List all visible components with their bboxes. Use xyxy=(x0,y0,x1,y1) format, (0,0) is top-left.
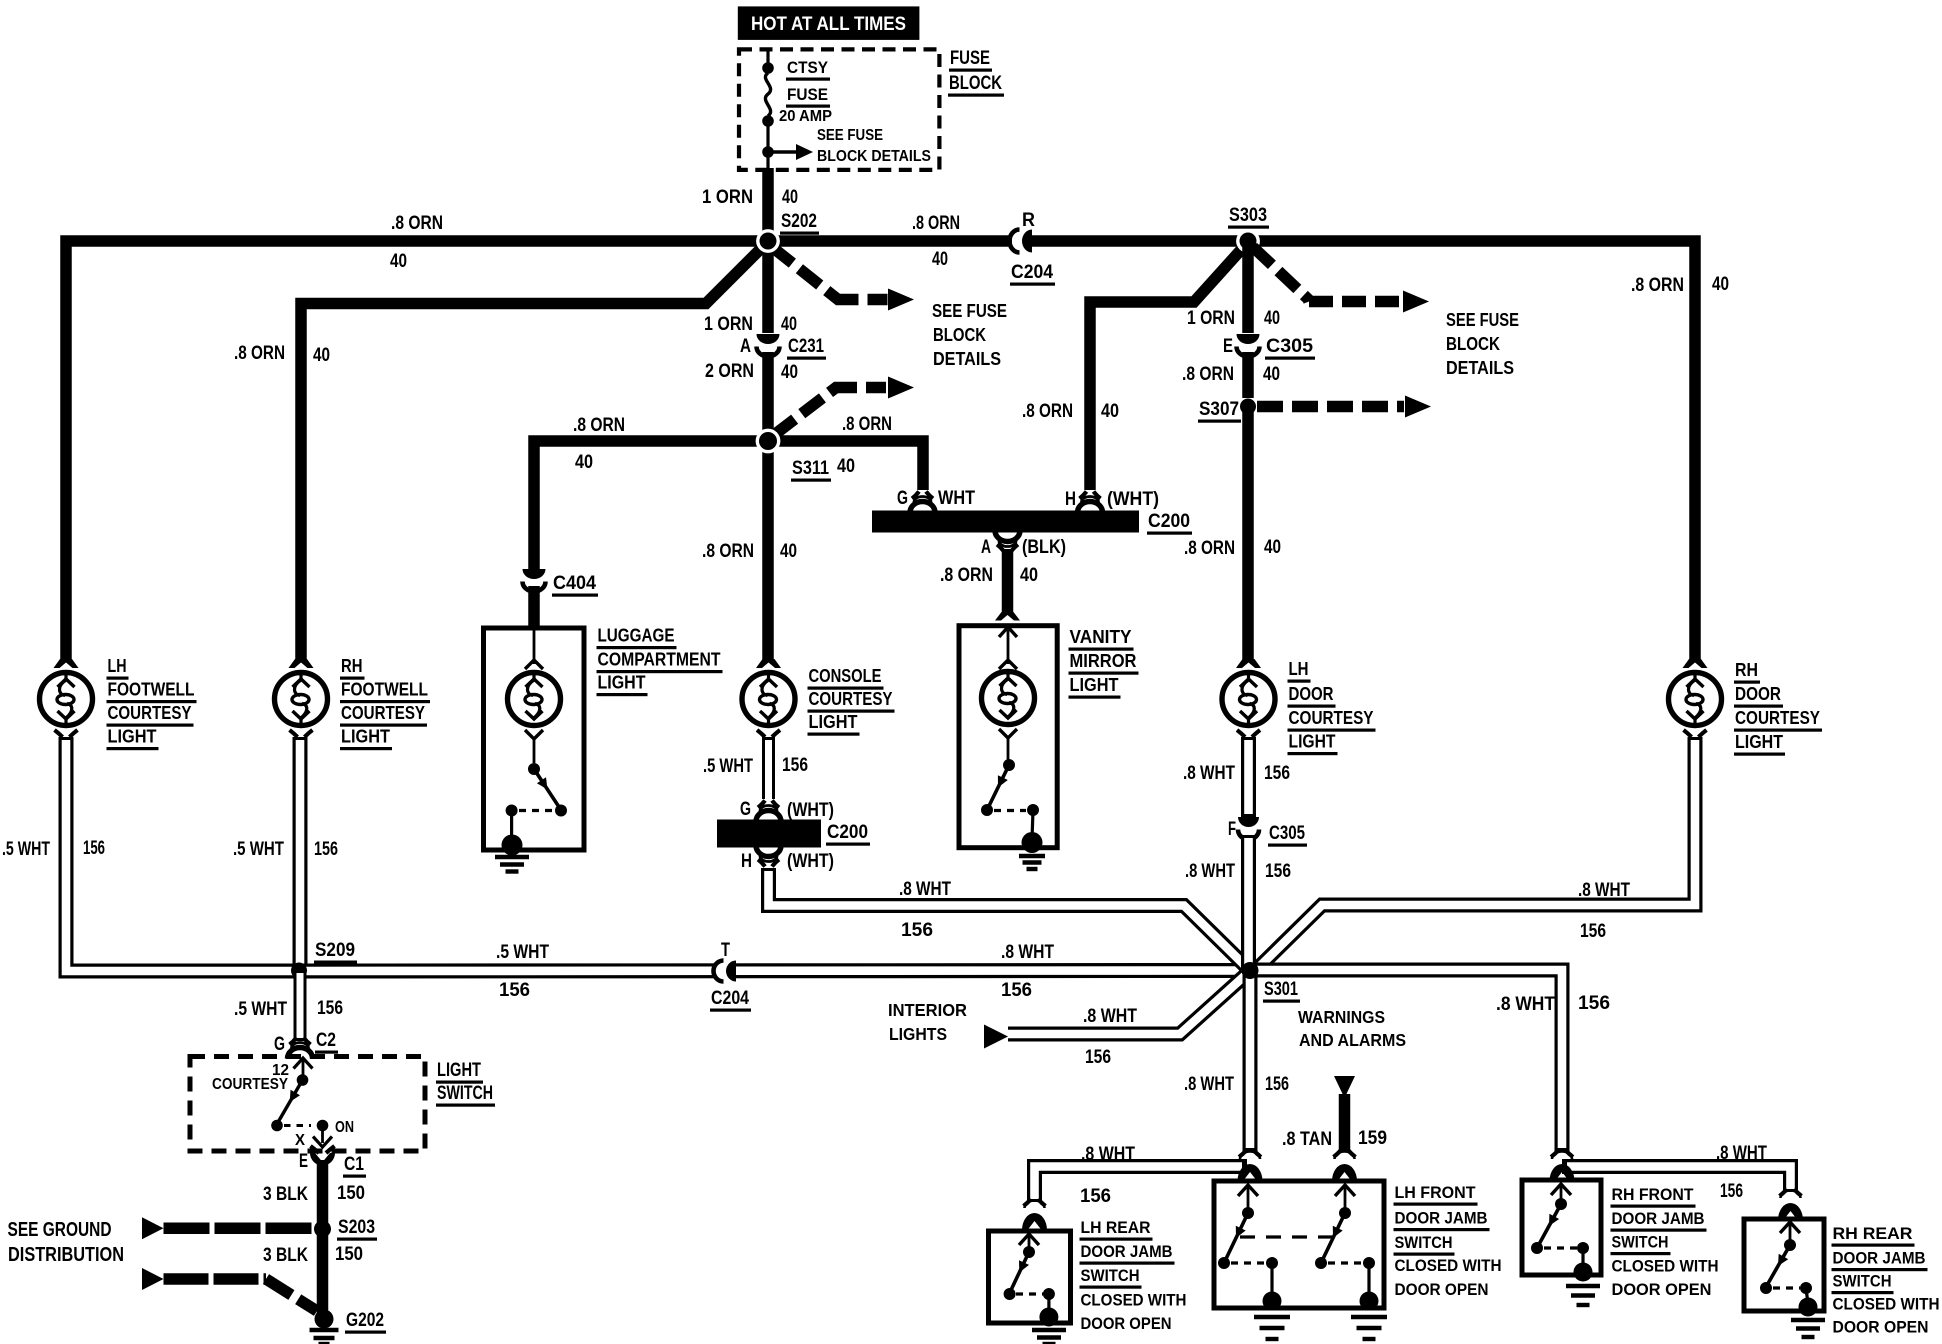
wire lamp feed inside luggage box xyxy=(533,628,536,664)
svg-text:.8 ORN: .8 ORN xyxy=(702,541,754,562)
connector C200 (console bar) xyxy=(717,820,821,848)
svg-text:C404: C404 xyxy=(553,573,596,594)
svg-text:156: 156 xyxy=(1001,980,1032,1001)
switch luggage (trunk) switch xyxy=(528,763,540,775)
svg-text:.8 ORN: .8 ORN xyxy=(912,213,960,234)
connector C200 pin H (lower bar) xyxy=(756,846,781,857)
svg-text:LIGHT: LIGHT xyxy=(1070,674,1120,695)
svg-text:CONSOLE: CONSOLE xyxy=(809,665,882,686)
svg-text:40: 40 xyxy=(782,187,798,208)
svg-text:G202: G202 xyxy=(346,1310,384,1331)
ground RH rear door jamb switch xyxy=(1791,1318,1825,1322)
svg-text:H: H xyxy=(1065,489,1076,510)
connector C204 terminal R (orange feed) xyxy=(1012,228,1032,255)
node see-fuse-block tap xyxy=(762,146,774,158)
svg-text:3 BLK: 3 BLK xyxy=(263,1184,308,1205)
svg-text:X: X xyxy=(295,1132,305,1149)
svg-text:SWITCH: SWITCH xyxy=(1612,1233,1669,1252)
svg-text:C2: C2 xyxy=(316,1030,336,1051)
svg-text:VANITY: VANITY xyxy=(1070,626,1133,647)
svg-text:.8 ORN: .8 ORN xyxy=(1022,401,1073,422)
svg-text:40: 40 xyxy=(781,362,798,383)
svg-text:40: 40 xyxy=(1101,401,1119,422)
svg-text:T: T xyxy=(721,940,730,961)
svg-text:LIGHTS: LIGHTS xyxy=(889,1024,947,1044)
svg-text:A: A xyxy=(740,336,751,357)
splice S311 xyxy=(756,429,781,454)
LH rear door jamb switch box xyxy=(989,1231,1071,1323)
svg-text:LH FRONT: LH FRONT xyxy=(1395,1183,1477,1202)
wire .8 ORN main run (left end down to LH footwell light) xyxy=(66,241,1695,661)
arrow from warnings and alarms (down) xyxy=(1334,1076,1355,1098)
wire .8 TAN to LH front jamb switch xyxy=(1339,1094,1351,1151)
svg-text:COURTESY: COURTESY xyxy=(809,688,894,709)
wire 2 ORN C231 to S311 xyxy=(762,352,774,441)
svg-text:40: 40 xyxy=(837,456,855,477)
luggage compartment light box xyxy=(484,628,585,850)
svg-text:LH REAR: LH REAR xyxy=(1081,1218,1151,1237)
wire .8 ORN C200 A to vanity light xyxy=(1002,549,1014,612)
svg-text:COURTESY: COURTESY xyxy=(108,702,193,723)
connector C204 terminal T (156 line) xyxy=(716,958,736,985)
svg-text:C200: C200 xyxy=(827,822,868,843)
connector to RH front door jamb switch xyxy=(1551,1150,1559,1157)
svg-text:CTSY: CTSY xyxy=(787,58,829,77)
svg-text:156: 156 xyxy=(1080,1186,1111,1207)
svg-text:LIGHT: LIGHT xyxy=(809,711,859,732)
switch RH rear door jamb xyxy=(1780,1222,1800,1233)
wire fuse feed (top, inside fuse block) xyxy=(766,49,769,64)
svg-text:G: G xyxy=(740,799,751,820)
svg-text:S209: S209 xyxy=(315,940,355,961)
svg-text:LH: LH xyxy=(1289,658,1309,679)
dashed arrow see ground distribution (upper) xyxy=(142,1217,164,1239)
svg-text:COURTESY: COURTESY xyxy=(212,1076,288,1093)
svg-text:.8 ORN: .8 ORN xyxy=(234,343,285,364)
svg-text:CLOSED WITH: CLOSED WITH xyxy=(1612,1257,1719,1276)
connector to LH rear door jamb switch xyxy=(1024,1199,1032,1206)
svg-text:COURTESY: COURTESY xyxy=(341,702,426,723)
connector C231 xyxy=(755,334,782,354)
svg-text:DISTRIBUTION: DISTRIBUTION xyxy=(8,1244,124,1266)
svg-text:S311: S311 xyxy=(792,458,829,479)
svg-text:DOOR OPEN: DOOR OPEN xyxy=(1081,1314,1172,1333)
bulb console courtesy light xyxy=(756,659,781,668)
switch RH front door jamb xyxy=(1551,1184,1571,1195)
svg-text:SEE FUSE: SEE FUSE xyxy=(1446,309,1519,330)
svg-text:40: 40 xyxy=(575,452,593,473)
wire .5 WHT LH footwell to S209 xyxy=(66,737,296,971)
light switch dashed box xyxy=(190,1057,425,1152)
svg-text:156: 156 xyxy=(1580,921,1606,942)
svg-text:CLOSED WITH: CLOSED WITH xyxy=(1395,1256,1502,1275)
svg-text:C231: C231 xyxy=(788,336,824,357)
svg-text:CLOSED WITH: CLOSED WITH xyxy=(1081,1291,1187,1310)
svg-text:3 BLK: 3 BLK xyxy=(263,1245,308,1266)
svg-text:C200: C200 xyxy=(1148,511,1190,532)
svg-text:HOT AT ALL TIMES: HOT AT ALL TIMES xyxy=(751,13,906,35)
svg-text:LIGHT: LIGHT xyxy=(598,672,647,693)
svg-text:ON: ON xyxy=(335,1119,354,1136)
svg-text:SWITCH: SWITCH xyxy=(437,1082,493,1104)
fuse CTSY FUSE 20 AMP element (squiggle) xyxy=(765,73,770,116)
wire .5 WHT console light to C200 G xyxy=(762,737,775,799)
wire lamp feed inside vanity box xyxy=(1007,630,1010,664)
wire bulb to switch (vanity) xyxy=(1007,738,1010,760)
connector C200 pin G (lower bar) xyxy=(758,801,765,808)
svg-text:.8 ORN: .8 ORN xyxy=(573,415,625,436)
svg-text:LUGGAGE: LUGGAGE xyxy=(598,625,675,646)
svg-text:.5 WHT: .5 WHT xyxy=(234,999,287,1020)
connector C200 pin G cup xyxy=(912,492,919,499)
svg-text:.5 WHT: .5 WHT xyxy=(496,942,549,963)
ground LH rear door jamb switch xyxy=(1032,1328,1066,1332)
svg-text:S203: S203 xyxy=(338,1217,375,1238)
svg-text:SWITCH: SWITCH xyxy=(1395,1233,1453,1252)
svg-text:LIGHT: LIGHT xyxy=(1289,731,1337,752)
svg-text:COMPARTMENT: COMPARTMENT xyxy=(598,649,722,670)
splice S303 xyxy=(1236,229,1260,253)
svg-text:.5 WHT: .5 WHT xyxy=(233,839,284,860)
svg-text:.8 WHT: .8 WHT xyxy=(1083,1006,1137,1027)
svg-text:156: 156 xyxy=(83,838,105,859)
svg-text:SWITCH: SWITCH xyxy=(1081,1266,1140,1285)
svg-text:40: 40 xyxy=(1712,274,1729,295)
gang dashed link between LH front switches xyxy=(1240,1235,1333,1238)
svg-text:156: 156 xyxy=(1085,1047,1111,1068)
svg-text:BLOCK: BLOCK xyxy=(1446,333,1501,354)
svg-text:FOOTWELL: FOOTWELL xyxy=(108,679,195,700)
svg-text:.8 ORN: .8 ORN xyxy=(1182,364,1234,385)
svg-text:159: 159 xyxy=(1358,1128,1387,1149)
svg-text:S307: S307 xyxy=(1199,399,1239,420)
svg-text:C1: C1 xyxy=(344,1154,364,1175)
splice S203 xyxy=(314,1221,331,1238)
wire 3 BLK S203 to G202 xyxy=(317,1229,329,1316)
svg-text:156: 156 xyxy=(1265,861,1291,882)
svg-text:WHT: WHT xyxy=(938,488,975,509)
svg-text:.5 WHT: .5 WHT xyxy=(2,839,50,860)
svg-text:.8 WHT: .8 WHT xyxy=(1001,942,1054,963)
svg-text:156: 156 xyxy=(317,998,343,1019)
wire .8 ORN C404 to luggage box xyxy=(528,586,540,628)
svg-text:A: A xyxy=(981,537,991,558)
wire .8 WHT S301 to RH front jamb switch xyxy=(1250,970,1562,1151)
svg-text:(WHT): (WHT) xyxy=(787,851,834,872)
svg-text:.8 ORN: .8 ORN xyxy=(842,414,892,435)
svg-text:DOOR: DOOR xyxy=(1289,683,1334,704)
svg-text:.8 WHT: .8 WHT xyxy=(1081,1144,1135,1165)
wire .8 WHT console H to S301 xyxy=(769,868,1251,971)
svg-text:LIGHT: LIGHT xyxy=(1735,731,1784,752)
node fuse bottom terminal xyxy=(762,115,774,127)
connector to RH rear door jamb switch xyxy=(1780,1189,1788,1196)
wire fuse output (inside fuse block) xyxy=(766,121,769,170)
wire .8 WHT interior lights to S301 xyxy=(1008,971,1250,1034)
wire .8 WHT LH front to LH rear jamb switch xyxy=(1035,1167,1248,1203)
ground LH front door jamb switch (right) xyxy=(1351,1315,1387,1319)
switch LH front door jamb (second contact) xyxy=(1335,1185,1355,1196)
switch LH front door jamb (driver side) xyxy=(1238,1185,1258,1196)
svg-text:40: 40 xyxy=(1263,364,1280,385)
splice S209 xyxy=(291,963,307,979)
svg-text:.8 WHT: .8 WHT xyxy=(1183,763,1235,784)
svg-text:MIRROR: MIRROR xyxy=(1070,650,1137,671)
wire .8 WHT S301 down to LH front jamb switch xyxy=(1243,971,1258,1152)
svg-text:R: R xyxy=(1022,210,1035,231)
dashed arrow S307 to right xyxy=(1257,401,1404,413)
svg-text:.8 ORN: .8 ORN xyxy=(940,565,993,586)
svg-text:156: 156 xyxy=(499,980,530,1001)
bulb vanity mirror light xyxy=(999,660,1017,669)
svg-text:COURTESY: COURTESY xyxy=(1289,707,1375,728)
svg-text:FUSE: FUSE xyxy=(950,47,990,69)
svg-text:S301: S301 xyxy=(1264,979,1298,1000)
svg-text:1 ORN: 1 ORN xyxy=(702,187,753,208)
svg-text:.5 WHT: .5 WHT xyxy=(703,756,753,777)
switch light switch courtesy contacts xyxy=(294,1058,313,1069)
svg-text:DOOR JAMB: DOOR JAMB xyxy=(1395,1209,1488,1228)
svg-text:.8 ORN: .8 ORN xyxy=(1184,538,1235,559)
svg-text:COURTESY: COURTESY xyxy=(1735,707,1821,728)
svg-text:.8 WHT: .8 WHT xyxy=(1185,861,1235,882)
svg-text:40: 40 xyxy=(1264,537,1281,558)
svg-text:S202: S202 xyxy=(781,211,817,232)
connector C305 terminal F xyxy=(1235,817,1262,837)
splice S202 xyxy=(756,229,780,253)
LH front door jamb switch box xyxy=(1214,1181,1384,1308)
svg-text:AND ALARMS: AND ALARMS xyxy=(1299,1030,1406,1050)
svg-text:BLOCK DETAILS: BLOCK DETAILS xyxy=(817,148,931,165)
svg-text:1 ORN: 1 ORN xyxy=(1187,308,1235,329)
svg-text:156: 156 xyxy=(1264,763,1290,784)
svg-text:FUSE: FUSE xyxy=(787,85,828,104)
fuse block dashed outline xyxy=(739,49,939,169)
wire 1 ORN fuse to S202 xyxy=(762,168,774,241)
connector C2 terminal G xyxy=(290,1038,297,1045)
svg-text:RH REAR: RH REAR xyxy=(1833,1224,1913,1243)
fuse block title HOT AT ALL TIMES xyxy=(738,6,920,40)
connector C200 pin H cup xyxy=(1080,492,1087,499)
svg-text:156: 156 xyxy=(1720,1181,1743,1202)
dashed arrow S202 to fuse block details xyxy=(772,247,839,300)
svg-text:.8 WHT: .8 WHT xyxy=(1716,1143,1767,1164)
wire bulb to switch (luggage) xyxy=(533,739,536,763)
svg-text:1 ORN: 1 ORN xyxy=(704,314,753,335)
svg-text:(WHT): (WHT) xyxy=(1107,489,1159,510)
svg-text:.8 WHT: .8 WHT xyxy=(1184,1074,1234,1095)
svg-text:SEE FUSE: SEE FUSE xyxy=(932,300,1007,321)
svg-text:RH FRONT: RH FRONT xyxy=(1612,1185,1695,1204)
svg-text:40: 40 xyxy=(1264,308,1280,329)
switch vanity mirror light switch xyxy=(1003,759,1015,771)
ground vanity mirror light xyxy=(1022,832,1043,853)
svg-text:2 ORN: 2 ORN xyxy=(705,361,754,382)
svg-text:E: E xyxy=(1223,336,1233,357)
connector C1 terminal E xyxy=(310,1153,335,1166)
wire .8 WHT RH door light to S301 xyxy=(1256,737,1695,970)
RH front door jamb switch box xyxy=(1522,1180,1601,1275)
svg-text:40: 40 xyxy=(932,249,948,270)
svg-text:(BLK): (BLK) xyxy=(1022,537,1066,558)
arrow to fuse block details xyxy=(768,150,797,153)
wire .5 WHT S209 to light switch C2 xyxy=(294,971,307,1041)
bulb LH footwell courtesy light xyxy=(54,659,79,668)
svg-text:DOOR OPEN: DOOR OPEN xyxy=(1612,1280,1712,1299)
svg-text:40: 40 xyxy=(390,251,407,272)
dashed arrow S303 to fuse block details xyxy=(1253,247,1309,302)
connector to LH front door jamb switch (right pin) xyxy=(1334,1150,1342,1157)
splice S307 xyxy=(1240,399,1256,415)
wire .8 ORN S307 to LH door light xyxy=(1242,406,1254,661)
svg-text:H: H xyxy=(741,851,752,872)
svg-text:(WHT): (WHT) xyxy=(787,800,834,821)
svg-text:DETAILS: DETAILS xyxy=(933,348,1001,369)
splice S301 xyxy=(1242,962,1259,979)
svg-text:40: 40 xyxy=(1020,565,1038,586)
svg-text:BLOCK: BLOCK xyxy=(949,72,1002,94)
svg-text:20 AMP: 20 AMP xyxy=(779,108,832,125)
svg-text:G: G xyxy=(274,1034,285,1055)
svg-text:.8 WHT: .8 WHT xyxy=(899,879,951,900)
svg-text:156: 156 xyxy=(314,839,338,860)
svg-text:CLOSED WITH: CLOSED WITH xyxy=(1833,1295,1940,1314)
svg-text:C305: C305 xyxy=(1269,823,1305,844)
ground G202 xyxy=(315,1310,334,1329)
svg-text:RH: RH xyxy=(1735,659,1758,680)
wire .8 ORN S311 left to luggage light xyxy=(534,441,768,570)
svg-text:156: 156 xyxy=(1578,993,1610,1014)
arrow from interior lights xyxy=(984,1025,1008,1049)
wire .8 ORN S311 right to C200 G xyxy=(768,441,923,490)
wire .5 WHT RH footwell to S209 xyxy=(293,737,308,968)
node fuse top terminal xyxy=(762,62,774,74)
svg-text:DOOR: DOOR xyxy=(1735,683,1781,704)
svg-text:40: 40 xyxy=(781,314,797,335)
svg-text:156: 156 xyxy=(1265,1074,1289,1095)
wire .8 WHT RH front to RH rear jamb switch xyxy=(1562,1167,1791,1193)
wire .8 WHT LH door light to C305 F xyxy=(1241,737,1256,817)
svg-text:G: G xyxy=(897,488,908,509)
bulb RH door courtesy light xyxy=(1683,659,1708,668)
RH rear door jamb switch box xyxy=(1744,1219,1824,1311)
svg-text:SEE FUSE: SEE FUSE xyxy=(817,127,883,144)
bulb luggage compartment light xyxy=(525,660,543,669)
terminal chevron at vanity box top xyxy=(999,627,1017,637)
connector to LH front door jamb switch (left pin) xyxy=(1239,1150,1247,1157)
svg-text:DOOR OPEN: DOOR OPEN xyxy=(1395,1280,1489,1299)
svg-text:40: 40 xyxy=(780,541,797,562)
wire .8 ORN C305 to S307 xyxy=(1242,352,1254,398)
ground luggage compartment light xyxy=(502,835,523,856)
wire 1 ORN S303 to C305 xyxy=(1242,241,1254,333)
svg-text:DOOR JAMB: DOOR JAMB xyxy=(1081,1242,1173,1261)
svg-text:DOOR JAMB: DOOR JAMB xyxy=(1833,1249,1926,1268)
svg-text:40: 40 xyxy=(313,345,330,366)
vanity mirror light box xyxy=(959,626,1057,848)
wire .8 ORN S311 down to console light xyxy=(762,441,774,661)
svg-text:LIGHT: LIGHT xyxy=(437,1059,481,1081)
switch LH rear door jamb xyxy=(1019,1234,1039,1245)
svg-text:LIGHT: LIGHT xyxy=(108,726,158,747)
svg-text:.8 WHT: .8 WHT xyxy=(1496,994,1555,1015)
svg-text:C204: C204 xyxy=(1011,262,1053,283)
svg-text:DOOR OPEN: DOOR OPEN xyxy=(1833,1318,1929,1337)
wire end flare into vanity box xyxy=(995,612,1020,621)
dashed arrow S311 to fuse block details xyxy=(774,388,837,436)
ground LH front door jamb switch (left) xyxy=(1254,1315,1290,1319)
bulb LH door courtesy light xyxy=(1236,659,1261,668)
bulb RH footwell courtesy light xyxy=(289,659,314,668)
svg-text:LH: LH xyxy=(108,655,127,676)
svg-text:INTERIOR: INTERIOR xyxy=(888,1000,967,1020)
svg-text:.8 WHT: .8 WHT xyxy=(1578,880,1630,901)
connector C305 terminal E xyxy=(1235,334,1262,354)
ground RH front door jamb switch xyxy=(1566,1284,1600,1288)
wire .8 ORN S303 diagonal to C200 H xyxy=(1090,247,1244,491)
svg-text:.8 ORN: .8 ORN xyxy=(391,213,443,234)
svg-text:WARNINGS: WARNINGS xyxy=(1298,1007,1385,1027)
wire 1 ORN S202 to C231 xyxy=(762,241,774,333)
svg-text:SWITCH: SWITCH xyxy=(1833,1272,1892,1291)
svg-text:DOOR JAMB: DOOR JAMB xyxy=(1612,1209,1705,1228)
svg-text:F: F xyxy=(1228,819,1236,840)
svg-text:.8 TAN: .8 TAN xyxy=(1282,1129,1332,1150)
svg-text:150: 150 xyxy=(337,1183,365,1204)
svg-text:C305: C305 xyxy=(1266,336,1313,357)
svg-text:C204: C204 xyxy=(711,988,749,1009)
svg-text:156: 156 xyxy=(901,920,933,941)
wire 3 BLK light switch to S203 xyxy=(317,1160,329,1229)
svg-text:S303: S303 xyxy=(1229,205,1267,226)
svg-text:150: 150 xyxy=(335,1244,363,1265)
svg-text:DETAILS: DETAILS xyxy=(1446,357,1514,378)
wire .5 WHT S209 to C204 to S301 xyxy=(299,963,1250,979)
svg-text:SEE GROUND: SEE GROUND xyxy=(8,1219,112,1241)
svg-text:.8 ORN: .8 ORN xyxy=(1631,275,1684,296)
svg-text:LIGHT: LIGHT xyxy=(341,726,391,747)
dashed arrow see ground distribution (lower) xyxy=(142,1268,164,1290)
svg-text:E: E xyxy=(299,1151,308,1172)
connector C200 pin A cup xyxy=(995,531,1020,542)
svg-text:156: 156 xyxy=(782,755,808,776)
svg-text:RH: RH xyxy=(341,655,363,676)
connector C200 (bulkhead bar) xyxy=(872,511,1139,533)
wire .8 ORN branch to RH footwell light xyxy=(301,244,766,662)
svg-text:FOOTWELL: FOOTWELL xyxy=(341,679,428,700)
wire .8 WHT C305 F to S301 xyxy=(1241,835,1256,971)
svg-text:BLOCK: BLOCK xyxy=(933,324,987,345)
connector C404 xyxy=(521,569,548,589)
